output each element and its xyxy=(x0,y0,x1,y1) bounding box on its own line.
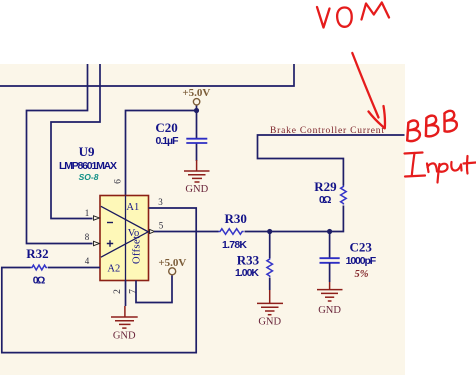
wire: feedback pin3 to R32 xyxy=(2,208,196,353)
wire: +5V node to pin 6 xyxy=(126,111,197,197)
node: junction +5V/C20/pin6 xyxy=(194,108,199,113)
svg-text:1: 1 xyxy=(85,208,90,218)
svg-text:R32: R32 xyxy=(26,246,48,261)
resistor R30 xyxy=(219,229,244,235)
resistor R33 xyxy=(267,258,273,277)
svg-text:C23: C23 xyxy=(350,239,373,254)
power +5.0V right xyxy=(158,257,186,275)
svg-text:8: 8 xyxy=(85,232,90,242)
power +5.0V top xyxy=(182,87,210,105)
svg-text:Offset: Offset xyxy=(132,236,143,264)
annotation BBB (red handwriting) xyxy=(405,110,458,142)
wire: pin 7 to +5V xyxy=(136,275,172,302)
resistor R29 xyxy=(341,186,347,205)
wire: +5V circle stem top xyxy=(196,105,198,111)
op-amp triangle xyxy=(101,206,148,257)
svg-text:GND: GND xyxy=(113,331,136,342)
svg-text:2: 2 xyxy=(113,289,123,294)
wire: brake controller net xyxy=(258,135,405,186)
svg-text:LMP8601MAX: LMP8601MAX xyxy=(59,160,117,172)
wire: C20 bottom xyxy=(196,144,198,162)
pin 1 arrow xyxy=(94,216,100,220)
wire: pin 5 output to R30 xyxy=(154,231,219,233)
wire: R32 to pin 4 xyxy=(48,267,100,269)
wire: R33 top xyxy=(269,232,271,259)
svg-text:GND: GND xyxy=(318,305,341,316)
svg-text:U9: U9 xyxy=(79,144,95,159)
svg-text:R30: R30 xyxy=(225,211,247,226)
capacitor C20 xyxy=(186,139,207,143)
resistor R32 xyxy=(31,265,48,270)
ground under C20 xyxy=(184,160,210,182)
wire: R30 to node xyxy=(245,231,330,233)
svg-text:0.1µF: 0.1µF xyxy=(156,135,180,147)
ground under R33 xyxy=(257,290,283,315)
svg-text:+5.0V: +5.0V xyxy=(158,257,186,269)
svg-text:1.78K: 1.78K xyxy=(222,239,247,251)
wire: net to pin 8 xyxy=(27,64,93,244)
svg-text:3: 3 xyxy=(158,197,163,207)
annotation VOM (red handwriting) xyxy=(317,3,389,28)
wire: main horizontal bus top xyxy=(0,64,294,86)
svg-text:1.00K: 1.00K xyxy=(235,267,259,279)
ground under C23 xyxy=(317,282,343,301)
wire: C23 top xyxy=(329,232,331,259)
svg-text:R33: R33 xyxy=(237,253,260,268)
svg-text:7: 7 xyxy=(129,289,139,294)
annotation Input (red handwriting) xyxy=(405,153,476,183)
svg-text:GND: GND xyxy=(185,184,208,195)
svg-text:GND: GND xyxy=(258,316,281,327)
svg-text:4: 4 xyxy=(85,256,90,266)
svg-text:A2: A2 xyxy=(107,263,120,274)
wire: R29 bottom to node xyxy=(330,206,344,232)
svg-text:A1: A1 xyxy=(126,202,139,213)
svg-text:SO-8: SO-8 xyxy=(79,172,99,182)
svg-text:1000pF: 1000pF xyxy=(346,255,377,267)
svg-text:5%: 5% xyxy=(355,269,369,280)
node: R30/R33 junction xyxy=(267,229,272,234)
annotation arrow (red) xyxy=(352,53,385,128)
wire: C23 bottom xyxy=(329,263,331,282)
capacitor C23 xyxy=(320,258,340,263)
svg-text:5: 5 xyxy=(159,221,164,231)
op-amp U9 body xyxy=(100,196,149,281)
plus sign input xyxy=(107,240,113,246)
svg-text:0Ω: 0Ω xyxy=(319,194,332,206)
minus sign input xyxy=(107,222,113,224)
pin 5 output arrow xyxy=(150,229,155,233)
pin 8 arrow xyxy=(94,241,100,245)
node: C23/R29 junction xyxy=(327,229,332,234)
wire: pin 2 down xyxy=(125,281,127,307)
svg-text:+5.0V: +5.0V xyxy=(182,87,210,99)
svg-text:0Ω: 0Ω xyxy=(33,275,46,287)
svg-text:C20: C20 xyxy=(155,120,177,135)
ground under pin 2 xyxy=(111,306,138,328)
svg-text:R29: R29 xyxy=(314,179,337,194)
wire: C20 top xyxy=(196,111,198,139)
op-amp inner pin line xyxy=(125,196,127,281)
wire: R33 bottom xyxy=(269,278,271,291)
svg-text:6: 6 xyxy=(114,179,124,184)
wire: net to pin 1 xyxy=(51,64,100,219)
